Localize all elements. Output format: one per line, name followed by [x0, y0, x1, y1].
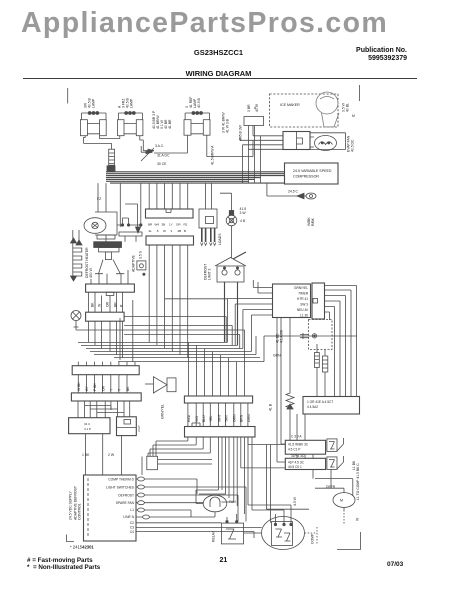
svg-text:TIMER: TIMER [298, 292, 309, 296]
svg-text:3 W: 3 W [240, 211, 247, 215]
svg-text:W: W [98, 303, 102, 307]
svg-text:FAN: FAN [229, 500, 236, 504]
svg-text:31 C: 31 C [84, 422, 91, 426]
svg-text:4 B: 4 B [240, 219, 246, 223]
svg-text:40.5 B: 40.5 B [197, 97, 201, 108]
svg-text:4.5 W: 4.5 W [293, 496, 297, 506]
svg-text:24.5 VDC SUPPLY: 24.5 VDC SUPPLY [69, 490, 73, 520]
svg-text:SW 3: SW 3 [300, 303, 308, 307]
svg-text:3: 3 [171, 229, 173, 233]
svg-text:COMP: COMP [311, 533, 315, 544]
svg-text:TAN: TAN [225, 415, 229, 422]
svg-text:L1 TO COMP 41.5 BK C: L1 TO COMP 41.5 BK C [356, 463, 360, 500]
svg-text:3 A.C.: 3 A.C. [155, 144, 164, 148]
svg-text:LINE N: LINE N [123, 515, 134, 519]
svg-text:RELAY: RELAY [212, 530, 216, 542]
svg-text:ADAPTIVE: ADAPTIVE [132, 254, 136, 272]
svg-text:W: W [163, 229, 166, 233]
svg-text:YEL: YEL [209, 415, 213, 422]
svg-text:W4: W4 [155, 223, 160, 227]
svg-text:4 1 P: 4 1 P [84, 427, 91, 431]
svg-text:P BK: P BK [93, 383, 97, 391]
svg-text:B: B [184, 229, 186, 233]
svg-text:41P 4.5 3C: 41P 4.5 3C [288, 461, 305, 465]
svg-text:BK: BK [126, 386, 130, 391]
svg-text:C4: C4 [130, 530, 134, 534]
svg-text:M: M [352, 114, 355, 118]
svg-text:41 BR: 41 BR [168, 119, 172, 129]
svg-text:31 A DC: 31 A DC [157, 154, 170, 158]
svg-text:2 W: 2 W [108, 453, 115, 457]
svg-text:M: M [340, 499, 343, 503]
svg-text:40 BL: 40 BL [346, 103, 350, 112]
svg-text:LOADS: LOADS [218, 233, 222, 245]
svg-text:41.5 W/BK 3C: 41.5 W/BK 3C [288, 443, 309, 447]
svg-text:RED: RED [187, 414, 191, 422]
svg-text:LIMIT 3: LIMIT 3 [208, 268, 212, 280]
svg-text:* 241542301: * 241542301 [70, 545, 94, 550]
svg-text:4B: 4B [178, 229, 182, 233]
svg-text:T: T [118, 389, 122, 391]
svg-text:ORN: ORN [233, 414, 237, 422]
svg-text:GRN/YEL: GRN/YEL [161, 404, 165, 419]
svg-text:40 W: 40 W [255, 103, 259, 112]
svg-text:BR: BR [148, 223, 153, 227]
svg-text:40.5 B 3W: 40.5 B 3W [239, 124, 243, 141]
svg-text:VIO: VIO [195, 416, 199, 422]
svg-text:3 BR: 3 BR [247, 104, 251, 112]
svg-text:FZ: FZ [97, 197, 101, 201]
svg-text:3 GY: 3 GY [137, 425, 141, 432]
svg-text:BLU: BLU [202, 415, 206, 422]
svg-text:24.5 C: 24.5 C [288, 190, 299, 194]
svg-text:450 W: 450 W [89, 267, 93, 278]
svg-text:4L: 4L [149, 229, 153, 233]
svg-text:DEFROST: DEFROST [118, 494, 134, 498]
svg-text:COMPRESSOR: COMPRESSOR [293, 175, 319, 179]
svg-text:1Y: 1Y [169, 223, 173, 227]
svg-text:24.5 VARIABLE SPEED: 24.5 VARIABLE SPEED [293, 169, 332, 173]
svg-text:NEU 40: NEU 40 [297, 308, 308, 312]
svg-text:WHT: WHT [217, 414, 221, 422]
svg-text:41 W 3 B: 41 W 3 B [226, 118, 230, 133]
svg-text:1 GR 41E A 4.5CT: 1 GR 41E A 4.5CT [307, 400, 333, 404]
svg-text:R/BK: R/BK [311, 217, 315, 226]
svg-text:BK: BK [91, 302, 95, 307]
svg-text:4.1 A DK: 4.1 A DK [280, 329, 284, 343]
svg-text:SPARE FAN: SPARE FAN [116, 501, 135, 505]
svg-text:C2: C2 [130, 521, 134, 525]
svg-text:LAMP: LAMP [130, 98, 134, 108]
svg-text:41 B: 41 B [269, 403, 273, 411]
svg-text:4 4.5A2: 4 4.5A2 [307, 405, 318, 409]
svg-text:R2: R2 [184, 223, 188, 227]
svg-text:31P 4 3C: 31P 4 3C [291, 454, 305, 458]
svg-text:GRN/YEL: GRN/YEL [294, 286, 308, 290]
svg-text:4.5 C1 P: 4.5 C1 P [288, 448, 300, 452]
svg-text:LAMP: LAMP [92, 98, 96, 108]
svg-text:W: W [356, 517, 360, 521]
svg-text:DEFR: DEFR [326, 485, 336, 489]
svg-text:OR: OR [106, 301, 110, 307]
svg-text:Y: Y [110, 388, 114, 391]
svg-text:HTR 41: HTR 41 [297, 297, 308, 301]
svg-text:.5: .5 [156, 229, 159, 233]
svg-text:C 3 0 A: C 3 0 A [291, 435, 302, 439]
svg-text:GRN: GRN [273, 354, 281, 358]
svg-text:W BK: W BK [77, 382, 81, 391]
svg-text:ICE MAKER: ICE MAKER [280, 103, 300, 107]
svg-text:LIGHT SWITCHES: LIGHT SWITCHES [106, 486, 135, 490]
svg-text:OR: OR [102, 385, 106, 391]
svg-text:BRN: BRN [240, 414, 244, 422]
svg-text:1 BK: 1 BK [82, 453, 90, 457]
svg-text:3.5 S: 3.5 S [139, 250, 143, 259]
svg-text:GY: GY [85, 385, 89, 391]
svg-text:40.5 C0 1: 40.5 C0 1 [288, 465, 302, 469]
svg-text:BR: BR [114, 302, 118, 307]
svg-text:COMP THERM D: COMP THERM D [108, 478, 134, 482]
svg-text:30 CE: 30 CE [157, 162, 167, 166]
svg-text:L1 30: L1 30 [300, 314, 308, 318]
svg-text:CONTROL: CONTROL [78, 503, 82, 520]
svg-text:41.5 BR/W A: 41.5 BR/W A [211, 145, 215, 165]
svg-text:3B: 3B [162, 223, 166, 227]
svg-text:L1: L1 [130, 508, 134, 512]
svg-text:GRN: GRN [247, 414, 251, 422]
svg-text:40.5 DC: 40.5 DC [351, 139, 355, 152]
svg-text:OR: OR [176, 223, 181, 227]
